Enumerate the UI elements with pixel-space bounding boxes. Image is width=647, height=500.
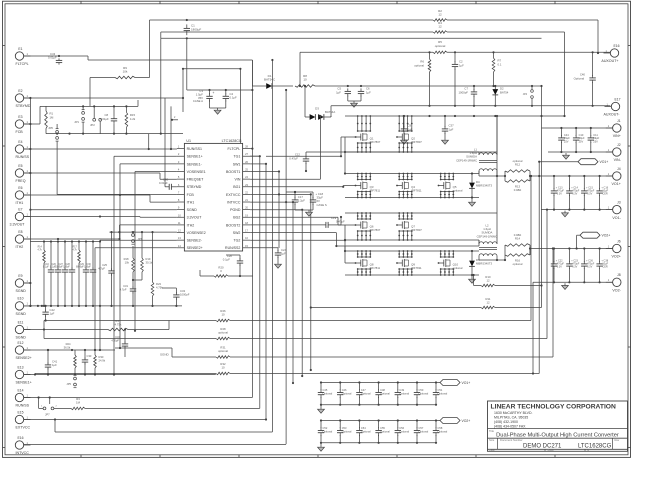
capacitor C3 1.5uF <box>193 89 215 103</box>
svg-text:1μF: 1μF <box>52 363 57 367</box>
capacitor C51 optional bank1 <box>433 383 448 405</box>
svg-text:1: 1 <box>27 52 29 56</box>
resistor R24 36.5k <box>64 342 77 375</box>
svg-text:J3: J3 <box>617 200 621 204</box>
svg-text:E1: E1 <box>18 47 22 51</box>
resistor R13 0.008 <box>504 171 531 192</box>
wire AUXOUT- rail <box>331 105 610 117</box>
svg-text:VO2+: VO2+ <box>602 234 611 238</box>
svg-text:1: 1 <box>27 169 29 173</box>
resistor R14 4.7k <box>37 242 45 306</box>
svg-text:ITH1: ITH1 <box>16 201 24 205</box>
wire mid vertical bus a <box>85 155 261 408</box>
wire STBYMD segment <box>182 68 242 144</box>
svg-text:SENSE2+: SENSE2+ <box>187 246 203 250</box>
wire lower top bus <box>161 32 542 38</box>
svg-text:JP1: JP1 <box>74 120 79 124</box>
svg-text:0.47μF: 0.47μF <box>289 156 298 160</box>
turret terminal E9 (SGND) <box>15 274 30 293</box>
svg-text:Optional: Optional <box>323 392 333 396</box>
svg-text:C25: C25 <box>102 263 107 267</box>
svg-text:C28: C28 <box>66 264 71 266</box>
wire ITH2 riser <box>118 225 176 239</box>
capacitor C15 470μF <box>581 175 595 211</box>
svg-text:1M: 1M <box>76 401 81 405</box>
wire gate bus row1 <box>356 136 358 138</box>
turret terminal E1 (FLTCPL) <box>15 47 30 66</box>
svg-text:Optional: Optional <box>438 430 448 434</box>
svg-text:1: 1 <box>27 145 29 149</box>
svg-text:1: 1 <box>27 191 29 195</box>
wire FCB rail <box>24 106 46 124</box>
svg-text:1μF: 1μF <box>459 63 464 67</box>
wire SENSE line 4 <box>34 162 539 376</box>
svg-text:3.3VOUT: 3.3VOUT <box>10 223 26 227</box>
turret terminal E4 (RUN/SS) <box>15 140 30 159</box>
svg-text:100pF: 100pF <box>84 267 91 269</box>
capacitor C32 1000pF <box>162 288 190 307</box>
capacitor C30 100pF <box>84 242 96 306</box>
svg-text:VIN: VIN <box>234 178 240 182</box>
wire R2 feed bus <box>150 20 600 54</box>
turret terminal E15 (EXTVCC) <box>15 410 30 429</box>
svg-text:E9: E9 <box>18 274 22 278</box>
svg-text:IRF7811: IRF7811 <box>370 189 381 193</box>
svg-text:6.3V: 6.3V <box>557 266 562 269</box>
svg-text:J8: J8 <box>617 273 621 277</box>
svg-text:12: 12 <box>438 13 442 17</box>
svg-text:100pF: 100pF <box>63 267 70 269</box>
svg-text:11: 11 <box>178 221 181 225</box>
wire mid vertical bus h <box>250 193 312 371</box>
svg-text:C49: C49 <box>399 388 404 392</box>
svg-text:BG1: BG1 <box>233 185 240 189</box>
wire mid vertical bus b <box>250 163 267 421</box>
svg-text:1: 1 <box>27 370 29 374</box>
svg-text:VO2+: VO2+ <box>462 419 471 423</box>
flag VO1+ upper <box>538 159 608 165</box>
svg-text:12: 12 <box>178 229 181 233</box>
wire cluster B top rail / VOSENSE2 pin12 <box>109 231 176 233</box>
svg-text:25V: 25V <box>564 139 569 143</box>
capacitor C2 1uF <box>452 51 464 107</box>
svg-text:ITH2: ITH2 <box>16 245 24 249</box>
title block date row <box>489 448 589 452</box>
capacitor C52 optional bank2 <box>318 421 333 443</box>
capacitor C38 0.01uF <box>159 178 177 190</box>
wire R8 to VIN caps rail <box>315 85 542 87</box>
capacitor C18 33uF <box>310 192 327 210</box>
svg-text:12: 12 <box>438 25 442 29</box>
svg-text:C57: C57 <box>419 426 424 430</box>
jack J8 (VO2-) <box>606 273 622 292</box>
svg-text:IRF7807: IRF7807 <box>411 228 422 232</box>
wire SGND ground rail <box>24 305 182 307</box>
svg-text:Optional: Optional <box>361 430 371 434</box>
svg-text:STBYMD: STBYMD <box>187 185 202 189</box>
capacitor C13 470μF <box>551 175 565 211</box>
capacitor C34 470pF <box>111 328 128 357</box>
inductor L2 CEP149 <box>477 213 505 261</box>
resistor R6 optional <box>414 51 431 107</box>
svg-text:MILPITAS, CA. 95035: MILPITAS, CA. 95035 <box>494 416 528 420</box>
wire SENSE line 2 <box>44 209 548 339</box>
capacitor C41 1uF <box>45 349 58 376</box>
wire C3 C4 rail <box>187 38 254 114</box>
resistor R7 0.1 <box>492 51 502 86</box>
svg-text:1: 1 <box>608 148 610 152</box>
U1 refdes and part number <box>186 139 241 143</box>
jack J3 (VO1-) <box>606 200 622 219</box>
capacitor C37 1uF <box>442 115 454 144</box>
capacitor C23 470μF output2 <box>566 247 580 283</box>
svg-text:4.7pF: 4.7pF <box>120 288 127 292</box>
wire SW1 rail row1 <box>306 137 497 171</box>
wire E16 INTVCC net <box>24 444 286 446</box>
svg-text:E8: E8 <box>18 230 22 234</box>
wire E6 ITH1 net <box>24 194 177 202</box>
svg-text:J6: J6 <box>617 239 621 243</box>
resistor R26 10 <box>216 309 230 322</box>
turret terminal E12 (SENSE2+) <box>15 341 31 360</box>
resistor R31 optional <box>216 346 230 359</box>
capacitor C42 1uF <box>42 305 55 322</box>
svg-text:22: 22 <box>245 190 248 194</box>
wire VO2 jog <box>529 249 531 256</box>
svg-text:24.9k: 24.9k <box>99 359 106 363</box>
svg-text:CASE S: CASE S <box>317 203 327 207</box>
svg-text:TG1: TG1 <box>233 155 240 159</box>
svg-text:Title: Title <box>489 429 494 433</box>
svg-text:CER: CER <box>602 266 607 269</box>
diode D2 BAT54 <box>492 85 508 107</box>
svg-text:VO1+: VO1+ <box>612 182 621 186</box>
svg-text:4.7μF: 4.7μF <box>98 267 105 271</box>
resistor R10 12 <box>481 275 495 287</box>
svg-text:LINEAR TECHNOLOGY CORPORATION: LINEAR TECHNOLOGY CORPORATION <box>491 404 617 411</box>
capacitor C25 4.7uF <box>98 232 115 307</box>
svg-text:Optional: Optional <box>342 430 352 434</box>
svg-text:1630 McCARTHY BLVD.: 1630 McCARTHY BLVD. <box>494 411 533 415</box>
svg-text:C50: C50 <box>419 388 424 392</box>
capacitor C1 <box>184 19 202 40</box>
resistor R1 1M <box>45 106 54 133</box>
svg-text:(408) 432-1900: (408) 432-1900 <box>494 420 518 424</box>
transistor Q9 IRF7811 <box>396 250 422 276</box>
wire cap bank2 rails <box>318 419 440 451</box>
svg-text:+: + <box>213 91 215 95</box>
svg-text:25V: 25V <box>593 139 598 143</box>
jumper JP4 aux <box>523 85 534 106</box>
svg-text:C48: C48 <box>380 388 385 392</box>
wire SENSE2+ riser pin14 <box>94 248 177 351</box>
svg-text:JP5: JP5 <box>66 382 71 386</box>
wire E5 FREQ net <box>24 173 177 179</box>
svg-text:VO1+: VO1+ <box>600 160 609 164</box>
svg-text:MBRS340T3: MBRS340T3 <box>476 262 492 266</box>
svg-text:CASE A: CASE A <box>193 99 203 103</box>
svg-text:INTVCC: INTVCC <box>16 451 30 455</box>
svg-text:3.3VOUT: 3.3VOUT <box>187 216 203 220</box>
svg-text:1: 1 <box>27 94 29 98</box>
wire VIN drain rail row1 <box>345 115 565 117</box>
svg-text:30.1k: 30.1k <box>146 261 153 265</box>
svg-text:Optional: Optional <box>419 430 429 434</box>
wire mid vertical bus f <box>250 201 294 384</box>
svg-text:RUN/SS: RUN/SS <box>16 155 30 159</box>
svg-text:E16: E16 <box>613 44 619 48</box>
svg-text:RUN/SS2: RUN/SS2 <box>225 246 240 250</box>
svg-text:20: 20 <box>245 206 248 210</box>
svg-text:R12: R12 <box>515 163 521 167</box>
svg-text:18: 18 <box>245 221 248 225</box>
resistor R32 10 <box>216 362 230 375</box>
resistor R18 10k <box>124 246 135 280</box>
svg-text:E15: E15 <box>17 410 23 414</box>
diode D1 BAT54C <box>264 74 293 89</box>
svg-text:17: 17 <box>245 229 248 233</box>
svg-text:6.3V: 6.3V <box>587 266 592 269</box>
svg-text:SENSE1+: SENSE1+ <box>16 381 32 385</box>
wire R10 line <box>473 274 543 287</box>
svg-text:0.1: 0.1 <box>498 62 502 66</box>
transistor Q8 IRF7811 <box>355 250 381 276</box>
wire row3 top rail <box>345 116 497 213</box>
svg-text:1800μF: 1800μF <box>191 27 201 31</box>
resistor R4 <box>433 21 447 33</box>
svg-text:TG2: TG2 <box>233 239 240 243</box>
resistor R14 0.008 <box>505 233 530 246</box>
jumper JP6 <box>48 124 58 141</box>
wire VO1 output rail <box>530 175 613 177</box>
svg-text:E10: E10 <box>17 297 23 301</box>
transistor Q2 IRF7807 <box>396 115 422 153</box>
svg-text:4.75k: 4.75k <box>156 286 163 290</box>
transistor Q7 IRF7807 <box>396 212 422 241</box>
svg-text:VIN-: VIN- <box>614 158 622 162</box>
svg-text:SGND: SGND <box>16 289 27 293</box>
svg-text:Document Number: Document Number <box>500 438 523 442</box>
svg-text:FLTCPL: FLTCPL <box>227 147 240 151</box>
capacitor C10 39uF <box>573 128 585 153</box>
capacitor C28 100pF <box>63 242 75 306</box>
svg-text:25V: 25V <box>579 139 584 143</box>
wire SW2 net <box>250 233 337 247</box>
svg-text:1: 1 <box>27 235 29 239</box>
resistor R3 1M <box>71 397 85 409</box>
turret terminal E16 (INTVCC) <box>15 436 30 455</box>
svg-text:VO2+: VO2+ <box>612 255 621 259</box>
svg-text:2: 2 <box>174 116 176 119</box>
svg-text:BOOST2: BOOST2 <box>226 223 240 227</box>
capacitor C22 470μF output2 <box>551 247 565 283</box>
svg-text:SGND: SGND <box>160 353 170 357</box>
svg-text:optional: optional <box>453 189 463 193</box>
svg-text:IRF7811: IRF7811 <box>411 266 422 270</box>
svg-text:C46: C46 <box>342 388 347 392</box>
svg-text:STBYMD: STBYMD <box>16 104 31 108</box>
svg-text:26: 26 <box>245 160 248 164</box>
wire VIN- rail <box>548 152 613 159</box>
wire E11 SGND net <box>24 328 108 330</box>
title block size/docnum/rev labels <box>489 438 620 442</box>
capacitor C7 1000pF <box>459 86 478 107</box>
transistor Q3 IRF7811 <box>355 173 381 199</box>
svg-text:optional: optional <box>414 63 424 67</box>
svg-text:SENSE1+: SENSE1+ <box>187 155 203 159</box>
wire SENSE1+ riser pin2 <box>113 156 177 375</box>
svg-text:JP6: JP6 <box>48 126 53 130</box>
jack J6 (VO2+) <box>606 239 621 258</box>
wire TG1 net <box>250 155 260 157</box>
svg-text:SENSE2+: SENSE2+ <box>16 356 32 360</box>
svg-text:Optional: Optional <box>342 392 352 396</box>
svg-text:IRF7807: IRF7807 <box>370 228 381 232</box>
svg-text:Size: Size <box>489 438 495 442</box>
capacitor C31 4.7pF <box>120 280 137 307</box>
wire VO2- rail <box>532 282 613 374</box>
svg-text:10k: 10k <box>123 70 128 74</box>
resistor R8 10 <box>295 74 315 87</box>
transistor Q4 IRF7811 <box>396 173 422 199</box>
svg-text:6.3V: 6.3V <box>572 193 577 196</box>
turret terminal E3 (FCB) <box>15 115 30 134</box>
wire SENSE line 3 SGND <box>115 247 554 357</box>
svg-text:10k: 10k <box>125 261 130 265</box>
resistor R11 12 <box>481 297 495 309</box>
svg-text:6.3V: 6.3V <box>557 193 562 196</box>
wire BG1 net <box>250 186 355 188</box>
capacitor C36 470μF output2 <box>581 247 595 283</box>
ground below C5 C6 <box>348 96 361 108</box>
jack J1 (VIN+) <box>606 119 621 138</box>
svg-text:of: of <box>587 448 589 452</box>
svg-text:CER: CER <box>602 193 607 196</box>
svg-text:IRF7811: IRF7811 <box>370 266 381 270</box>
transistor Q5 optional <box>438 173 463 199</box>
svg-text:6: 6 <box>178 183 180 187</box>
capacitor C56 optional bank2 <box>395 421 410 443</box>
svg-text:1: 1 <box>27 279 29 283</box>
turret terminal E2 (STBYMD) <box>15 89 31 108</box>
title block schematic title <box>496 432 619 438</box>
svg-text:E4: E4 <box>18 140 22 144</box>
wire SENSE1- riser pin3 <box>119 164 177 349</box>
svg-text:0: 0 <box>220 269 222 273</box>
resistor R9 10k <box>90 20 150 106</box>
svg-text:Optional: Optional <box>438 392 448 396</box>
capacitor C14 470μF <box>566 175 580 211</box>
svg-text:R30: R30 <box>99 355 104 359</box>
capacitor C55 optional bank2 <box>375 421 390 443</box>
svg-text:BAT54: BAT54 <box>500 90 509 94</box>
flag VO2+ lower <box>576 232 611 249</box>
svg-text:SGND: SGND <box>187 208 198 212</box>
svg-text:D3: D3 <box>315 107 319 111</box>
wire VOSENSE1 riser pin4 <box>134 172 177 332</box>
svg-text:E12: E12 <box>17 341 23 345</box>
svg-text:R14: R14 <box>38 247 43 249</box>
flag VO2+ bank2 <box>440 418 470 424</box>
svg-text:optional: optional <box>513 159 523 163</box>
capacitor C20 0.1uF <box>223 254 243 277</box>
title block DEMO DC271 <box>523 444 562 450</box>
svg-text:BOOST1: BOOST1 <box>226 170 240 174</box>
wire SGND pin9 wire <box>29 209 177 211</box>
svg-text:1: 1 <box>27 120 29 124</box>
svg-text:6.3V: 6.3V <box>572 266 577 269</box>
U1 pin names <box>187 147 241 250</box>
svg-text:Rev: Rev <box>615 438 620 442</box>
wire jumper rail upper <box>46 105 138 107</box>
svg-text:R14: R14 <box>515 237 521 241</box>
svg-text:15: 15 <box>245 244 248 248</box>
wire mid vertical bus d <box>250 170 280 248</box>
wire E7 3.3VOUT net <box>24 215 177 217</box>
diode D4 MBRS340T3 <box>469 174 492 199</box>
capacitor C17 2.2uF <box>292 191 305 210</box>
resistor R28 optional <box>216 327 230 340</box>
svg-text:Optional: Optional <box>361 392 371 396</box>
svg-text:C52: C52 <box>323 426 328 430</box>
capacitor C8 0.01uF <box>100 106 117 133</box>
wire D1 anode rail <box>252 60 266 86</box>
svg-text:IRF7811: IRF7811 <box>411 189 422 193</box>
svg-text:SENSE2-: SENSE2- <box>187 239 203 243</box>
wire BG2 net <box>250 217 355 225</box>
svg-text:JP2: JP2 <box>90 123 95 127</box>
svg-text:FCB: FCB <box>187 193 195 197</box>
svg-text:10: 10 <box>221 313 225 317</box>
svg-text:J2: J2 <box>617 143 621 147</box>
capacitor C57 optional bank2 <box>414 421 429 443</box>
turret terminal E6 (ITH1) <box>15 186 30 205</box>
svg-text:optional: optional <box>453 266 463 270</box>
resistor R16 optional <box>504 245 531 266</box>
svg-text:EXTVCC: EXTVCC <box>226 193 241 197</box>
turret terminal E7 (3.3VOUT) <box>10 207 31 226</box>
svg-text:C16: C16 <box>45 264 50 266</box>
svg-text:DEMO DC271: DEMO DC271 <box>523 444 562 450</box>
svg-text:12: 12 <box>486 301 490 305</box>
svg-text:1μF: 1μF <box>366 90 371 94</box>
svg-text:RUN/SS: RUN/SS <box>16 404 30 408</box>
svg-text:4.2k: 4.2k <box>130 117 136 121</box>
capacitor C53 optional bank2 <box>337 421 352 443</box>
svg-text:ITH2: ITH2 <box>187 223 195 227</box>
wire VO2 output rail <box>530 247 613 249</box>
capacitor C4 0.1uF <box>223 92 237 102</box>
wire component rail upper <box>30 240 100 242</box>
svg-text:E3: E3 <box>18 115 22 119</box>
turret terminal E10 (SGND) <box>15 297 30 316</box>
svg-text:FLTCPL: FLTCPL <box>16 62 29 66</box>
svg-text:1: 1 <box>27 346 29 350</box>
resistor R19 30.1k <box>132 232 153 281</box>
svg-text:0.01μF: 0.01μF <box>48 55 57 59</box>
jumper JP5 <box>66 375 76 387</box>
svg-text:1: 1 <box>27 212 29 216</box>
svg-text:13: 13 <box>178 236 181 240</box>
turret terminal E5 (FREQ) <box>15 164 30 183</box>
svg-text:E17: E17 <box>614 97 620 101</box>
svg-text:1μF: 1μF <box>281 252 286 256</box>
svg-text:21: 21 <box>245 198 248 202</box>
svg-text:SW1: SW1 <box>233 162 241 166</box>
svg-text:Date:: Date: <box>489 448 495 452</box>
wire E2 STBYMD net <box>24 97 184 187</box>
svg-text:VOSENSE1: VOSENSE1 <box>187 170 206 174</box>
